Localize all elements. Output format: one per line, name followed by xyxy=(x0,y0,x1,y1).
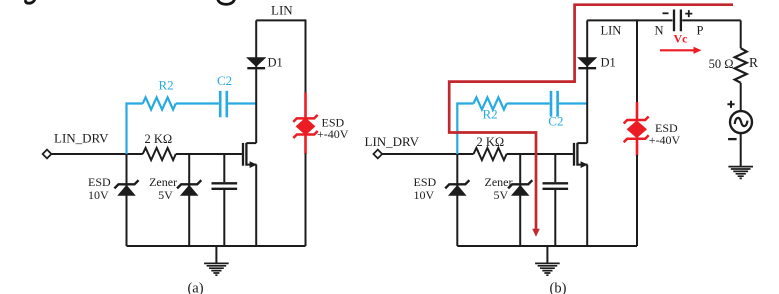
svg-text:Vc: Vc xyxy=(674,32,689,46)
capacitor C2 (a) xyxy=(220,91,227,117)
blue wire C2 to drain line (b) xyxy=(559,102,587,104)
descender of letter j (cropped text above) xyxy=(26,0,35,3)
wire top to 50 ohm resistor (b) xyxy=(740,20,742,48)
transistor M1 source wire down (b) xyxy=(586,165,588,246)
right branch red wire segment (a) xyxy=(304,93,307,155)
capacitor (a) xyxy=(212,183,238,189)
diode D1 (b) xyxy=(578,58,596,68)
capacitor (b) xyxy=(543,183,569,189)
svg-text:+-40V: +-40V xyxy=(317,127,349,141)
transistor M1 channel bar (b) xyxy=(576,143,578,166)
minus sign at source (b) xyxy=(728,138,737,140)
resistor 2 KOhm (a) xyxy=(143,148,176,160)
right branch lower black wire (a) xyxy=(305,154,307,247)
AC source circle (b) xyxy=(730,111,752,133)
wire capacitor branch lower (b) xyxy=(554,190,556,246)
TVS branch lower black wire (b) xyxy=(636,155,638,246)
svg-text:50 Ω: 50 Ω xyxy=(709,57,734,71)
red path arrowhead (b) xyxy=(532,229,540,237)
bottom rail (b) xyxy=(457,245,637,247)
wire Zener 5V branch (a) xyxy=(188,154,190,246)
transistor M1 source jog with arrow (a) xyxy=(246,164,256,166)
diode D1 (a) xyxy=(247,58,265,68)
red surge current path annotation (b) xyxy=(449,5,733,230)
svg-text:R2: R2 xyxy=(483,107,498,122)
zener diode ESD 10V (a) xyxy=(114,180,138,195)
resistor 2 KOhm (b) xyxy=(474,148,507,160)
minus sign above capacitor (b) xyxy=(663,12,669,14)
wire source to ground (b) xyxy=(740,133,742,166)
AC source sine wave (b) xyxy=(735,118,748,126)
resistor R2 (b) xyxy=(474,97,507,109)
drain wire up to LIN (b) xyxy=(586,20,588,143)
svg-text:R: R xyxy=(749,55,758,70)
svg-text:C2: C2 xyxy=(217,73,232,88)
wire resistor to gate (a) xyxy=(176,153,242,155)
svg-text:5V: 5V xyxy=(158,188,173,202)
svg-text:D1: D1 xyxy=(601,56,616,70)
wire LIN_DRV to 2K resistor (b) xyxy=(382,153,473,155)
svg-text:LIN_DRV: LIN_DRV xyxy=(365,134,420,149)
TVS branch red wire segment (b) xyxy=(636,102,639,156)
wire capacitor branch lower (a) xyxy=(223,190,225,246)
transistor M1 drain jog (a) xyxy=(246,142,256,144)
svg-text:C2: C2 xyxy=(548,114,563,129)
resistor R2 (a) xyxy=(143,97,176,109)
svg-text:5V: 5V xyxy=(494,188,509,202)
plus sign at source (b) xyxy=(727,101,734,108)
top wire right of series capacitor (b) xyxy=(682,19,741,21)
wire Zener 5V branch (b) xyxy=(519,154,521,246)
blue wire R2 to C2 (b) xyxy=(507,102,550,104)
ground right (b) xyxy=(728,167,753,179)
transistor M1 source wire down (a) xyxy=(255,165,257,246)
blue wire up from LIN_DRV node (b) xyxy=(457,104,473,155)
top wire (a) xyxy=(256,19,305,21)
svg-text:R2: R2 xyxy=(159,78,174,93)
capacitor C2 (b) xyxy=(551,91,558,117)
wire ESD 10V branch (a) xyxy=(126,154,128,246)
svg-text:LIN: LIN xyxy=(271,3,293,18)
wire capacitor branch upper (b) xyxy=(554,154,556,182)
red arrow Vc direction (b) xyxy=(660,49,694,51)
TVS diode ESD +-40V (b) xyxy=(624,117,649,143)
svg-text:N: N xyxy=(655,24,664,38)
drain wire up to LIN (a) xyxy=(255,20,257,143)
svg-text:2 KΩ: 2 KΩ xyxy=(145,132,173,146)
wire LIN_DRV to 2K resistor (a) xyxy=(51,153,142,155)
svg-text:P: P xyxy=(697,24,704,38)
series capacitor on LIN line (b) xyxy=(674,10,681,32)
TVS diode ESD +-40V (a) xyxy=(293,115,317,138)
svg-text:LIN: LIN xyxy=(601,24,622,38)
svg-text:2 KΩ: 2 KΩ xyxy=(477,135,505,149)
svg-text:D1: D1 xyxy=(268,56,283,70)
right branch upper black wire (a) xyxy=(305,19,307,94)
svg-text:10V: 10V xyxy=(88,188,109,202)
blue wire R2 to C2 (a) xyxy=(176,102,219,104)
zener diode ESD 10V (b) xyxy=(445,180,469,195)
plus sign above capacitor (b) xyxy=(685,10,692,17)
top wire left of series capacitor (b) xyxy=(587,19,672,21)
svg-text:(b): (b) xyxy=(550,281,567,294)
wire capacitor branch upper (a) xyxy=(223,154,225,182)
descender of letter g (cropped text above) xyxy=(217,0,234,4)
wire resistor to source (b) xyxy=(740,83,742,112)
TVS branch upper black wire (b) xyxy=(636,19,638,103)
svg-text:10V: 10V xyxy=(414,188,435,202)
blue wire C2 to drain line (a) xyxy=(228,102,256,104)
wire resistor to gate (b) xyxy=(507,153,573,155)
transistor M1 drain jog (b) xyxy=(577,142,587,144)
svg-text:LIN_DRV: LIN_DRV xyxy=(54,131,109,146)
wire ESD 10V branch (b) xyxy=(456,154,458,246)
ground (a) xyxy=(204,246,229,275)
resistor R 50 ohm (b) xyxy=(735,48,747,83)
bottom rail (a) xyxy=(127,245,306,247)
ground (b) xyxy=(535,246,560,275)
blue wire up from LIN_DRV node (a) xyxy=(127,104,143,155)
transistor M1 channel bar (a) xyxy=(245,143,247,166)
input terminal diamond (a) xyxy=(43,150,52,159)
svg-text:(a): (a) xyxy=(187,281,203,294)
zener diode 5V (a) xyxy=(177,180,201,195)
input terminal diamond (b) xyxy=(373,150,382,159)
transistor M1 gate bar (b) xyxy=(573,143,575,166)
svg-text:+-40V: +-40V xyxy=(649,133,681,147)
transistor M1 source jog with arrow (b) xyxy=(577,164,587,166)
zener diode 5V (b) xyxy=(508,180,532,195)
transistor M1 gate bar (a) xyxy=(242,143,244,166)
